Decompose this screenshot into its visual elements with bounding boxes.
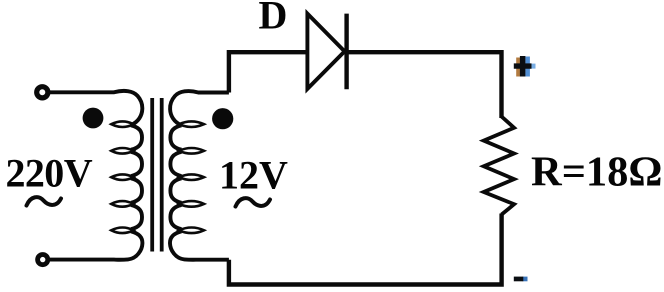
svg-text:R=18Ω: R=18Ω — [531, 148, 662, 195]
svg-text:220V: 220V — [6, 150, 93, 195]
svg-text:D: D — [259, 0, 288, 38]
svg-text:12V: 12V — [219, 152, 288, 197]
